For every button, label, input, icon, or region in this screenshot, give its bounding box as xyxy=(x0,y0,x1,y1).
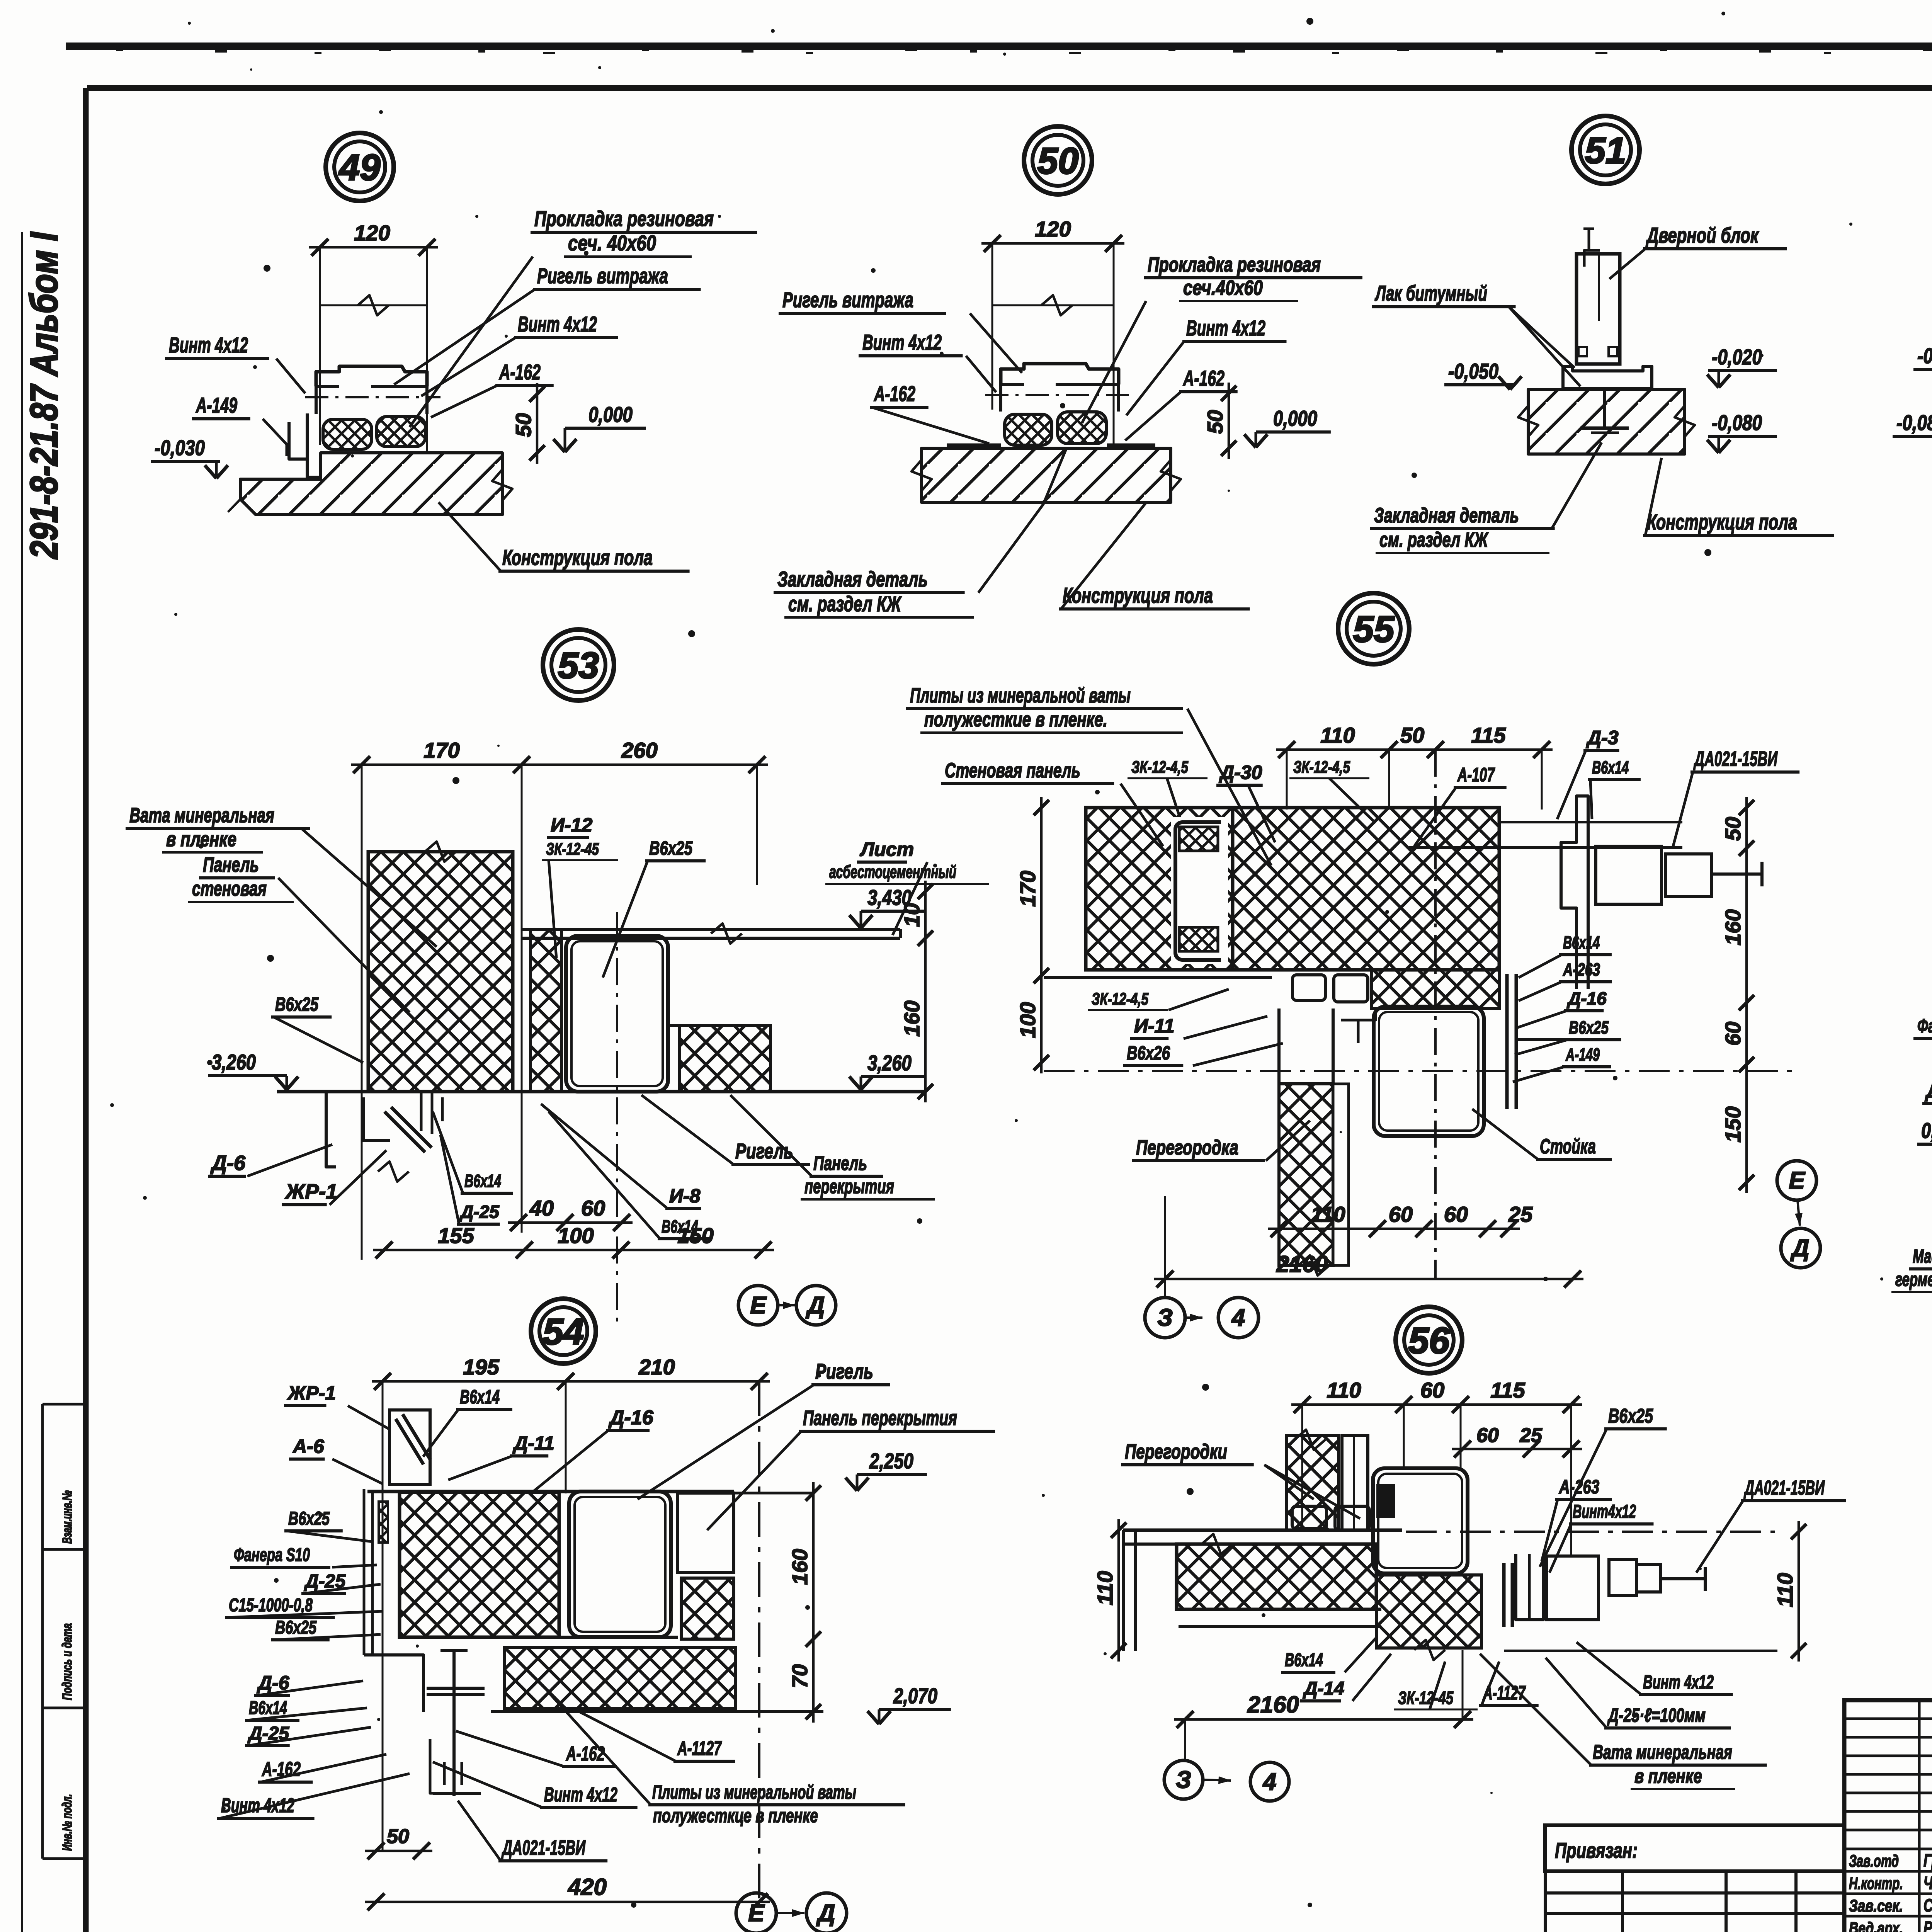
svg-text:ЖР-1: ЖР-1 xyxy=(287,1382,336,1404)
svg-text:ЖР-1: ЖР-1 xyxy=(284,1180,337,1203)
svg-text:В6х25: В6х25 xyxy=(288,1509,330,1529)
svg-text:160: 160 xyxy=(900,1000,924,1036)
svg-text:Ригель витража: Ригель витража xyxy=(782,287,913,312)
svg-text:А-1127: А-1127 xyxy=(677,1737,722,1760)
svg-text:Винт 4х12: Винт 4х12 xyxy=(221,1794,294,1817)
svg-text:Д-3: Д-3 xyxy=(1586,727,1619,748)
svg-text:ЗК-12-4,5: ЗК-12-4,5 xyxy=(1293,758,1350,777)
svg-text:50: 50 xyxy=(387,1825,409,1848)
svg-text:Винт 4х12: Винт 4х12 xyxy=(862,330,942,354)
svg-text:Е: Е xyxy=(1789,1167,1805,1194)
svg-text:Ригель: Ригель xyxy=(815,1359,873,1383)
svg-text:Винт 4х12: Винт 4х12 xyxy=(1643,1671,1714,1693)
svg-text:Д-30: Д-30 xyxy=(1219,762,1262,783)
svg-text:А-162: А-162 xyxy=(499,360,541,384)
svg-text:120: 120 xyxy=(354,221,390,245)
svg-text:155: 155 xyxy=(438,1223,474,1248)
svg-text:100: 100 xyxy=(558,1223,594,1248)
svg-text:В6х14: В6х14 xyxy=(1563,932,1600,952)
svg-text:Дверной блок: Дверной блок xyxy=(1646,223,1759,247)
svg-text:60: 60 xyxy=(1721,1022,1745,1046)
svg-text:Винт 4х12: Винт 4х12 xyxy=(169,333,248,357)
svg-text:110: 110 xyxy=(1311,1202,1345,1226)
svg-text:60: 60 xyxy=(1389,1202,1413,1226)
svg-text:-0,080: -0,080 xyxy=(1712,410,1762,435)
svg-text:Фанера S10: Фанера S10 xyxy=(1917,1015,1932,1037)
svg-text:50: 50 xyxy=(1400,723,1424,747)
svg-text:А-149: А-149 xyxy=(196,393,237,417)
svg-text:А-6: А-6 xyxy=(292,1435,325,1457)
svg-text:51: 51 xyxy=(1585,130,1626,171)
svg-text:420: 420 xyxy=(568,1874,607,1900)
svg-text:Стойка: Стойка xyxy=(1540,1135,1596,1158)
svg-text:полужесткие в пленке.: полужесткие в пленке. xyxy=(924,708,1107,731)
svg-text:60: 60 xyxy=(1444,1202,1468,1226)
svg-text:А-107: А-107 xyxy=(1457,764,1495,786)
svg-text:Инв.№ подл.: Инв.№ подл. xyxy=(60,1794,75,1851)
svg-text:Е: Е xyxy=(748,1900,765,1927)
svg-text:Панель перекрытия: Панель перекрытия xyxy=(803,1406,957,1430)
svg-text:В6х26: В6х26 xyxy=(1127,1042,1170,1064)
svg-text:115: 115 xyxy=(1471,723,1506,747)
svg-text:Мастика: Мастика xyxy=(1913,1245,1932,1267)
svg-text:Д-16: Д-16 xyxy=(1566,988,1607,1009)
svg-text:Панель: Панель xyxy=(813,1152,867,1175)
svg-text:210: 210 xyxy=(638,1355,675,1379)
svg-text:см. раздел КЖ: см. раздел КЖ xyxy=(1379,528,1489,551)
svg-text:120: 120 xyxy=(1035,217,1071,241)
svg-text:110: 110 xyxy=(1320,723,1355,747)
svg-text:Семериченко: Семериченко xyxy=(1923,1895,1932,1915)
svg-text:Закладная деталь: Закладная деталь xyxy=(777,567,928,591)
svg-text:сеч. 40х60: сеч. 40х60 xyxy=(568,231,656,255)
svg-text:60: 60 xyxy=(1420,1378,1444,1402)
svg-text:Ригель витража: Ригель витража xyxy=(537,264,668,288)
svg-text:3,260: 3,260 xyxy=(212,1050,256,1074)
svg-text:см. раздел КЖ: см. раздел КЖ xyxy=(788,592,902,616)
svg-text:асбестоцементный: асбестоцементный xyxy=(829,862,956,882)
svg-text:Д: Д xyxy=(1790,1235,1810,1262)
svg-text:С15-1000-0,8: С15-1000-0,8 xyxy=(229,1595,313,1616)
svg-text:110: 110 xyxy=(1327,1378,1361,1402)
svg-text:60: 60 xyxy=(581,1196,605,1220)
svg-text:53: 53 xyxy=(558,645,599,686)
svg-text:сеч.40х60: сеч.40х60 xyxy=(1183,276,1263,299)
svg-text:Д-11: Д-11 xyxy=(512,1432,554,1454)
svg-text:Взам.инв.№: Взам.инв.№ xyxy=(60,1490,75,1544)
svg-text:Привязан:: Привязан: xyxy=(1555,1838,1638,1862)
svg-text:Чиркова: Чиркова xyxy=(1923,1873,1932,1893)
svg-text:в пленке: в пленке xyxy=(1634,1765,1702,1787)
svg-text:Конструкция пола: Конструкция пола xyxy=(1647,510,1797,534)
svg-text:В6х25: В6х25 xyxy=(1608,1405,1653,1427)
svg-text:И-11: И-11 xyxy=(1134,1015,1175,1037)
svg-text:А-149: А-149 xyxy=(1565,1044,1600,1065)
svg-text:195: 195 xyxy=(463,1355,499,1379)
svg-text:И-12: И-12 xyxy=(551,814,592,836)
svg-text:ДА021-15ВИ: ДА021-15ВИ xyxy=(1743,1477,1825,1499)
svg-text:А-263: А-263 xyxy=(1563,959,1600,980)
svg-text:Лак битумный: Лак битумный xyxy=(1374,281,1487,305)
svg-text:Грибова: Грибова xyxy=(1923,1850,1932,1871)
svg-text:Конструкция пола: Конструкция пола xyxy=(1063,583,1213,607)
svg-text:50: 50 xyxy=(1037,140,1079,182)
svg-text:160: 160 xyxy=(1721,909,1745,945)
svg-text:0,000: 0,000 xyxy=(1273,406,1317,430)
svg-text:Перегородки: Перегородки xyxy=(1125,1440,1227,1463)
svg-text:полужесткце в пленке: полужесткце в пленке xyxy=(653,1805,818,1827)
svg-text:0,000: 0,000 xyxy=(588,402,633,427)
svg-text:Лист: Лист xyxy=(860,838,914,860)
svg-text:110: 110 xyxy=(1093,1571,1117,1605)
svg-text:55: 55 xyxy=(1353,609,1395,650)
svg-text:-0,020: -0,020 xyxy=(1712,345,1762,369)
svg-text:Д: Д xyxy=(816,1900,835,1927)
svg-text:А-263: А-263 xyxy=(1558,1476,1599,1498)
svg-text:Фанера S10: Фанера S10 xyxy=(234,1545,310,1565)
svg-text:49: 49 xyxy=(338,147,381,188)
svg-text:50: 50 xyxy=(1721,817,1745,841)
svg-text:Д-16: Д-16 xyxy=(608,1406,654,1429)
svg-text:В6х25: В6х25 xyxy=(275,993,319,1015)
svg-text:2160: 2160 xyxy=(1247,1692,1299,1718)
svg-text:4: 4 xyxy=(1262,1769,1276,1795)
svg-text:В6х14: В6х14 xyxy=(249,1698,287,1718)
svg-text:2160: 2160 xyxy=(1276,1251,1328,1277)
svg-text:Вата минеральная: Вата минеральная xyxy=(129,804,274,827)
svg-text:З: З xyxy=(1176,1767,1191,1793)
svg-text:В6х25: В6х25 xyxy=(649,837,693,859)
svg-text:Винт 4х12: Винт 4х12 xyxy=(518,312,597,336)
svg-text:В6х14: В6х14 xyxy=(662,1216,698,1236)
svg-text:В6х25: В6х25 xyxy=(275,1617,317,1638)
svg-text:Панель: Панель xyxy=(203,853,259,876)
svg-text:Розина: Розина xyxy=(1923,1918,1932,1932)
svg-text:60: 60 xyxy=(1476,1424,1499,1447)
svg-text:В6х14: В6х14 xyxy=(460,1386,500,1408)
svg-text:-0,050: -0,050 xyxy=(1448,359,1498,383)
svg-text:25: 25 xyxy=(1519,1424,1543,1447)
svg-text:З: З xyxy=(1157,1304,1173,1331)
svg-text:25: 25 xyxy=(1508,1202,1533,1226)
svg-text:Винт 4х12: Винт 4х12 xyxy=(1186,316,1265,340)
svg-text:260: 260 xyxy=(621,738,657,762)
svg-text:4: 4 xyxy=(1231,1304,1245,1331)
svg-text:Д-25: Д-25 xyxy=(459,1202,500,1222)
svg-text:Плиты из минеральной ваты: Плиты из минеральной ваты xyxy=(652,1781,856,1803)
svg-text:Винт 4х12: Винт 4х12 xyxy=(544,1784,617,1806)
svg-text:Д-6: Д-6 xyxy=(210,1151,246,1175)
svg-text:Е: Е xyxy=(750,1292,767,1319)
svg-text:2,250: 2,250 xyxy=(869,1449,913,1473)
svg-text:Винт4х12: Винт4х12 xyxy=(1573,1502,1636,1522)
svg-text:Зав.отд: Зав.отд xyxy=(1849,1852,1899,1871)
svg-text:Д: Д xyxy=(806,1292,825,1319)
svg-text:Прокладка резиновая: Прокладка резиновая xyxy=(1148,253,1321,276)
svg-text:Д-14: Д-14 xyxy=(1303,1679,1344,1699)
svg-text:-0,030: -0,030 xyxy=(155,435,205,460)
svg-text:40: 40 xyxy=(529,1196,554,1220)
svg-text:ЗК-12-4,5: ЗК-12-4,5 xyxy=(1131,758,1188,777)
svg-text:герметизирующая: герметизирующая xyxy=(1895,1269,1932,1290)
svg-text:перекрытия: перекрытия xyxy=(804,1175,894,1198)
svg-text:В6х25: В6х25 xyxy=(1569,1017,1609,1037)
svg-text:-0,020: -0,020 xyxy=(1917,344,1932,368)
svg-text:А-162: А-162 xyxy=(1183,366,1225,390)
svg-text:50: 50 xyxy=(511,413,536,437)
svg-text:291-8-21.87 Альбом I: 291-8-21.87 Альбом I xyxy=(22,231,66,560)
svg-text:ЗК-12-45: ЗК-12-45 xyxy=(546,840,599,859)
svg-text:3,430: 3,430 xyxy=(867,885,912,910)
svg-text:стеновая: стеновая xyxy=(192,877,267,900)
svg-text:115: 115 xyxy=(1490,1378,1525,1402)
svg-text:ДА021-15ВИ: ДА021-15ВИ xyxy=(1693,747,1777,770)
svg-text:170: 170 xyxy=(1015,871,1040,906)
svg-text:56: 56 xyxy=(1408,1320,1450,1361)
svg-text:ЗК-12-4,5: ЗК-12-4,5 xyxy=(1092,990,1148,1009)
svg-text:Конструкция пола: Конструкция пола xyxy=(502,545,653,570)
svg-text:170: 170 xyxy=(423,738,459,762)
svg-text:ЗК-12-45: ЗК-12-45 xyxy=(1398,1688,1454,1708)
svg-text:70: 70 xyxy=(787,1664,812,1688)
svg-text:150: 150 xyxy=(1721,1106,1745,1142)
svg-text:50: 50 xyxy=(1203,410,1227,434)
svg-text:Стеновая панель: Стеновая панель xyxy=(945,759,1080,782)
svg-text:А-162: А-162 xyxy=(874,381,915,406)
svg-text:Вед.арх.: Вед.арх. xyxy=(1849,1919,1903,1932)
svg-text:В6х14: В6х14 xyxy=(464,1171,501,1191)
svg-text:100: 100 xyxy=(1015,1002,1040,1038)
svg-text:2,070: 2,070 xyxy=(893,1684,937,1708)
svg-text:ДА021-15ВИ: ДА021-15ВИ xyxy=(501,1836,585,1859)
svg-text:Закладная деталь: Закладная деталь xyxy=(1374,504,1519,527)
svg-text:И-8: И-8 xyxy=(669,1185,701,1207)
svg-text:Зав.сек.: Зав.сек. xyxy=(1849,1896,1903,1915)
svg-text:54: 54 xyxy=(543,1311,584,1352)
svg-text:110: 110 xyxy=(1773,1573,1797,1607)
svg-text:Плиты из минеральной ваты: Плиты из минеральной ваты xyxy=(910,684,1131,707)
svg-text:В6х14: В6х14 xyxy=(1592,757,1629,777)
svg-text:0,030: 0,030 xyxy=(1921,1118,1932,1143)
svg-text:Перегородка: Перегородка xyxy=(1136,1136,1238,1159)
svg-text:Прокладка резиновая: Прокладка резиновая xyxy=(534,206,714,231)
svg-text:-0,080: -0,080 xyxy=(1896,410,1932,435)
svg-text:160: 160 xyxy=(787,1549,812,1585)
svg-text:Подпись и дата: Подпись и дата xyxy=(60,1623,75,1700)
svg-text:Н.контр.: Н.контр. xyxy=(1849,1874,1903,1893)
svg-text:Вата минеральная: Вата минеральная xyxy=(1593,1741,1732,1764)
svg-text:В6х14: В6х14 xyxy=(1285,1650,1323,1670)
svg-text:Д-25·ℓ=100мм: Д-25·ℓ=100мм xyxy=(1607,1704,1706,1726)
svg-text:3,260: 3,260 xyxy=(867,1051,912,1075)
